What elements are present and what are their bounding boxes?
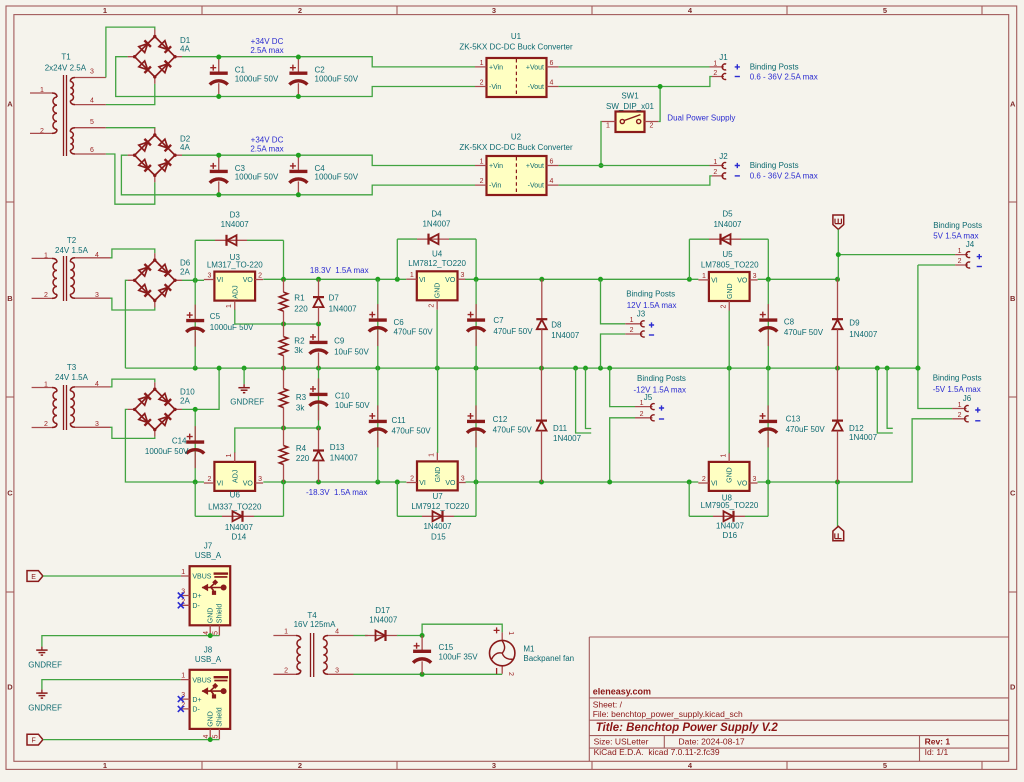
J7 pin names xyxy=(192,574,223,624)
svg-text:12V 1.5A max: 12V 1.5A max xyxy=(627,301,677,310)
svg-text:C1: C1 xyxy=(235,66,246,75)
svg-text:LM7805_TO220: LM7805_TO220 xyxy=(701,260,759,269)
C15 labels xyxy=(439,643,479,661)
capacitor C5 xyxy=(186,305,204,347)
svg-text:1N4007: 1N4007 xyxy=(553,434,582,443)
svg-text:Rev: 1: Rev: 1 xyxy=(925,737,951,747)
svg-text:R4: R4 xyxy=(296,444,307,453)
svg-text:1: 1 xyxy=(181,673,185,680)
svg-text:LM337_TO220: LM337_TO220 xyxy=(208,502,262,511)
svg-text:D3: D3 xyxy=(230,210,241,219)
diode D3 xyxy=(195,235,283,246)
title block text xyxy=(593,687,951,758)
ground symbol GNDREF J8 xyxy=(36,690,47,699)
svg-text:VI: VI xyxy=(217,481,224,488)
svg-text:J2: J2 xyxy=(719,152,728,161)
svg-text:ADJ: ADJ xyxy=(232,470,239,483)
U6 labels xyxy=(208,490,262,511)
C12 labels xyxy=(493,415,533,434)
transformer T3 xyxy=(32,385,110,430)
svg-text:2A: 2A xyxy=(180,268,190,277)
J2 note binding posts xyxy=(750,161,818,180)
svg-text:VO: VO xyxy=(243,277,254,284)
svg-text:ZK-5KX DC-DC Buck Converter: ZK-5KX DC-DC Buck Converter xyxy=(459,43,573,52)
J8 labels xyxy=(195,645,222,664)
svg-text:VI: VI xyxy=(217,277,224,284)
switch SW1 xyxy=(602,112,659,133)
D11 labels xyxy=(553,424,582,443)
junction dot SW1 bottom xyxy=(599,163,604,168)
svg-text:3k: 3k xyxy=(296,404,305,413)
svg-text:R2: R2 xyxy=(294,337,305,346)
ground rail xyxy=(125,367,918,369)
D9 labels xyxy=(849,319,878,340)
svg-text:VO: VO xyxy=(445,480,456,487)
junction dots 5V rail xyxy=(766,277,840,282)
J7 labels xyxy=(195,542,222,561)
svg-text:2: 2 xyxy=(429,304,436,308)
svg-text:1N4007: 1N4007 xyxy=(369,615,398,624)
wire D5 left vertical xyxy=(688,239,690,279)
capacitor C2 xyxy=(289,57,307,96)
frame row labels xyxy=(7,100,1016,692)
svg-text:2: 2 xyxy=(40,128,44,135)
connector J6 xyxy=(952,409,966,419)
D12 labels xyxy=(849,424,878,442)
svg-text:1: 1 xyxy=(40,87,44,94)
svg-text:1: 1 xyxy=(226,304,233,308)
svg-text:C11: C11 xyxy=(392,416,407,425)
wire -12V rail U7 VO to U8 VI xyxy=(466,481,699,483)
svg-text:M1: M1 xyxy=(523,644,535,653)
svg-text:T4: T4 xyxy=(307,611,317,620)
svg-text:-Vout: -Vout xyxy=(528,183,544,190)
U5 labels xyxy=(701,250,759,269)
svg-text:Binding Posts: Binding Posts xyxy=(637,374,686,383)
regulator U8 LM7905 xyxy=(698,452,757,491)
svg-text:U6: U6 xyxy=(230,490,241,499)
svg-text:KiCad E.D.A. kicad 7.0.11-2.f: KiCad E.D.A. kicad 7.0.11-2.fc39 xyxy=(594,747,720,757)
svg-text:2: 2 xyxy=(207,476,211,483)
svg-text:1: 1 xyxy=(640,400,644,407)
svg-text:0.6 - 36V 2.5A max: 0.6 - 36V 2.5A max xyxy=(750,172,818,181)
transformer T2 xyxy=(32,256,110,301)
U4 labels xyxy=(408,249,466,268)
svg-text:2: 2 xyxy=(44,292,48,299)
svg-text:+Vout: +Vout xyxy=(526,65,544,72)
svg-text:J6: J6 xyxy=(963,394,972,403)
svg-text:Size: USLetter: Size: USLetter xyxy=(594,737,649,747)
svg-text:+Vout: +Vout xyxy=(526,163,544,170)
wire F flag to J8 GND+Shield xyxy=(43,739,210,741)
svg-text:2A: 2A xyxy=(180,397,190,406)
wire U8 GND to ground rail xyxy=(728,368,730,453)
wire T4 pin4 to D17 xyxy=(354,635,368,637)
svg-text:C8: C8 xyxy=(784,318,795,327)
buck converter U1 xyxy=(475,58,559,97)
svg-text:SW_DIP_x01: SW_DIP_x01 xyxy=(606,102,655,111)
C5 labels xyxy=(210,312,254,332)
frame column labels xyxy=(103,6,887,770)
T1 labels xyxy=(40,53,94,155)
svg-text:J4: J4 xyxy=(966,240,975,249)
svg-text:10uF 50V: 10uF 50V xyxy=(334,348,369,357)
diode D17 xyxy=(365,630,397,641)
D15 labels xyxy=(423,522,452,542)
svg-text:3: 3 xyxy=(461,272,465,279)
wire -5V rail U8 VO to J6 pin2 xyxy=(758,419,953,482)
svg-text:4A: 4A xyxy=(180,143,190,152)
svg-text:3: 3 xyxy=(90,68,94,75)
svg-text:16V 125mA: 16V 125mA xyxy=(294,620,336,629)
wire U3 ADJ to divider xyxy=(235,310,319,324)
svg-text:B: B xyxy=(7,294,13,303)
svg-text:D-: D- xyxy=(192,603,200,610)
wire T1 pin6 to D2 bottom xyxy=(106,154,155,204)
junction dots 18.3V rail xyxy=(281,277,400,282)
wire C10 column xyxy=(318,368,320,428)
wire U5 GND to ground rail xyxy=(728,311,730,369)
wire C12 column xyxy=(475,368,477,482)
svg-text:4: 4 xyxy=(335,629,339,636)
J1 labels xyxy=(713,53,728,77)
svg-text:USB_A: USB_A xyxy=(195,655,222,664)
svg-text:ADJ: ADJ xyxy=(232,285,239,298)
bridge rectifier D10 xyxy=(128,382,182,436)
svg-text:U2: U2 xyxy=(511,133,522,142)
svg-text:VI: VI xyxy=(711,278,718,285)
svg-text:A: A xyxy=(1010,100,1016,109)
svg-text:470uF 50V: 470uF 50V xyxy=(493,327,533,336)
junction dots -18.3V rail xyxy=(281,480,400,485)
svg-text:T2: T2 xyxy=(67,236,77,245)
svg-text:4: 4 xyxy=(95,381,99,388)
D4 labels xyxy=(422,210,451,229)
svg-text:1: 1 xyxy=(44,382,48,389)
svg-text:3: 3 xyxy=(207,273,211,280)
wire D10 left to U6 VI xyxy=(125,409,204,482)
D10 labels xyxy=(180,388,195,406)
wire U7 GND to ground rail xyxy=(437,368,439,453)
svg-text:0.6 - 36V 2.5A max: 0.6 - 36V 2.5A max xyxy=(750,73,818,82)
J2 labels xyxy=(713,152,728,176)
svg-text:1N4007: 1N4007 xyxy=(225,523,254,532)
junction dots ADJ line U3 xyxy=(281,322,321,327)
svg-text:GND: GND xyxy=(207,608,214,624)
svg-text:VI: VI xyxy=(419,480,426,487)
svg-text:+34V DC: +34V DC xyxy=(251,136,284,145)
capacitor C10 xyxy=(310,378,328,420)
svg-text:5V 1.5A max: 5V 1.5A max xyxy=(933,232,978,241)
svg-text:+34V DC: +34V DC xyxy=(251,37,284,46)
svg-text:C: C xyxy=(1010,489,1016,498)
svg-text:eleneasy.com: eleneasy.com xyxy=(593,687,651,697)
wire C8 column xyxy=(767,279,769,368)
C6 labels xyxy=(394,318,434,336)
junction dot ground to J4/J6 column xyxy=(915,366,920,371)
D6 labels xyxy=(180,259,191,277)
junction dot D6 output node xyxy=(193,278,198,283)
wire J4 pin1 xyxy=(838,254,955,256)
resistor R4 xyxy=(279,428,287,482)
svg-text:1: 1 xyxy=(630,317,634,324)
svg-text:1: 1 xyxy=(507,631,514,635)
D3 labels xyxy=(221,210,250,229)
svg-text:VI: VI xyxy=(419,277,426,284)
R2 labels xyxy=(294,337,305,356)
capacitor C3 xyxy=(210,155,228,194)
svg-text:1: 1 xyxy=(410,272,414,279)
title block xyxy=(589,637,1008,761)
connector J3 xyxy=(625,324,642,334)
J5 labels xyxy=(640,393,653,418)
connector J1 xyxy=(710,67,725,77)
C13 labels xyxy=(786,415,826,434)
C2 labels xyxy=(315,66,359,84)
svg-text:5: 5 xyxy=(90,119,94,126)
svg-text:C9: C9 xyxy=(334,337,345,346)
wire D1 left loop to bottom rail xyxy=(116,57,475,97)
U1 labels xyxy=(459,32,573,51)
svg-text:3: 3 xyxy=(492,761,496,770)
svg-text:J7: J7 xyxy=(204,542,213,551)
svg-text:Sheet: /: Sheet: / xyxy=(593,699,623,709)
resistor R3 xyxy=(279,368,287,428)
wire D6 left to ground rail xyxy=(125,280,127,368)
svg-text:VO: VO xyxy=(445,277,456,284)
junction dots ADJ line U6 xyxy=(281,426,321,431)
connector J2 xyxy=(710,166,725,176)
junction dots C15 xyxy=(420,633,425,677)
svg-text:C10: C10 xyxy=(335,392,350,401)
regulator U4 LM7812 xyxy=(406,271,465,310)
svg-text:R1: R1 xyxy=(294,294,305,303)
C7 labels xyxy=(493,316,533,336)
svg-text:+Vin: +Vin xyxy=(489,65,503,72)
svg-text:5: 5 xyxy=(883,761,887,770)
svg-text:470uF 50V: 470uF 50V xyxy=(493,425,533,434)
svg-text:1N4007: 1N4007 xyxy=(849,433,878,442)
svg-text:D15: D15 xyxy=(431,532,446,541)
svg-text:-18.3V 1.5A max: -18.3V 1.5A max xyxy=(306,488,367,497)
svg-text:T3: T3 xyxy=(67,363,77,372)
wire U3 VO rail 18.3V xyxy=(263,278,406,280)
svg-text:1: 1 xyxy=(713,159,717,166)
junction dot J4 pin1 column xyxy=(836,252,841,257)
global label F flag bottom xyxy=(837,482,839,526)
diode D16 under U8 xyxy=(688,482,690,516)
dangling stub wires near J6 xyxy=(877,368,893,433)
svg-text:1: 1 xyxy=(480,159,484,166)
svg-text:Id: 1/1: Id: 1/1 xyxy=(925,747,949,757)
svg-text:U4: U4 xyxy=(432,249,443,258)
wire T2 pin4 to D6 top xyxy=(110,249,155,258)
svg-text:D11: D11 xyxy=(553,424,568,433)
svg-text:3: 3 xyxy=(492,6,496,15)
svg-text:U5: U5 xyxy=(722,250,733,259)
fan M1 xyxy=(490,632,515,673)
svg-text:1N4007: 1N4007 xyxy=(422,220,451,229)
J8 pin names xyxy=(192,677,223,727)
J6 labels xyxy=(958,394,972,419)
junction dots ground rail xyxy=(193,366,921,371)
svg-text:Binding Posts: Binding Posts xyxy=(626,289,675,298)
wire J8 VBUS to ground xyxy=(42,680,181,690)
svg-text:2: 2 xyxy=(258,273,262,280)
svg-text:J3: J3 xyxy=(637,310,646,319)
svg-text:Title: Benchtop Power Supply V: Title: Benchtop Power Supply V.2 xyxy=(596,722,779,734)
svg-text:GNDREF: GNDREF xyxy=(28,704,62,713)
svg-text:1: 1 xyxy=(958,402,962,409)
svg-text:5: 5 xyxy=(883,6,887,15)
svg-text:C4: C4 xyxy=(315,164,326,173)
svg-text:3: 3 xyxy=(95,421,99,428)
svg-text:D5: D5 xyxy=(722,210,733,219)
resistor R1 xyxy=(279,279,287,324)
svg-text:470uF 50V: 470uF 50V xyxy=(394,327,434,336)
capacitor C1 xyxy=(210,57,228,96)
wire SW1 left to U2 +Vout xyxy=(600,122,603,166)
svg-text:2: 2 xyxy=(298,761,302,770)
J8 no-connect marks xyxy=(178,696,184,712)
regulator U3 LM317 xyxy=(204,272,263,311)
svg-text:2.5A max: 2.5A max xyxy=(250,46,283,55)
wire D3 left vertical xyxy=(194,240,196,280)
connector J7 USB_A xyxy=(181,566,230,635)
note +34V DC row2 xyxy=(250,136,283,154)
svg-text:Binding Posts: Binding Posts xyxy=(750,63,799,72)
svg-text:220: 220 xyxy=(294,305,308,314)
wire U2 -Vout to J2 pin2 xyxy=(559,176,712,185)
svg-text:R3: R3 xyxy=(296,393,307,402)
svg-text:2: 2 xyxy=(410,476,414,483)
C4 labels xyxy=(315,164,359,182)
svg-text:1N4007: 1N4007 xyxy=(849,330,878,339)
wire U4 GND to ground rail xyxy=(436,310,438,368)
U2 labels xyxy=(459,133,573,152)
J7 pin numbers xyxy=(181,569,219,635)
wire C11 column xyxy=(377,368,379,482)
global label E flag top xyxy=(833,215,844,229)
svg-text:VO: VO xyxy=(737,278,748,285)
wire C13 column xyxy=(767,368,769,482)
svg-text:D9: D9 xyxy=(849,319,860,328)
wire T1 pin3 to D1 top xyxy=(106,27,155,77)
svg-text:3: 3 xyxy=(753,476,757,483)
svg-text:Shield: Shield xyxy=(217,604,224,624)
T3 labels xyxy=(44,363,99,428)
svg-text:5: 5 xyxy=(213,735,220,739)
svg-text:C2: C2 xyxy=(315,66,326,75)
svg-text:1N4007: 1N4007 xyxy=(221,220,250,229)
regulator U7 LM7912 xyxy=(407,452,466,491)
bridge rectifier D1 xyxy=(128,30,182,84)
C3 labels xyxy=(235,164,279,182)
svg-text:SW1: SW1 xyxy=(621,92,639,101)
svg-text:D+: D+ xyxy=(192,697,201,704)
svg-text:2: 2 xyxy=(713,70,717,77)
svg-text:1: 1 xyxy=(103,6,107,15)
R3 labels xyxy=(296,393,307,413)
D5 labels xyxy=(713,210,742,229)
resistor R2 xyxy=(279,324,287,368)
wire C7 column xyxy=(475,279,477,368)
svg-text:C5: C5 xyxy=(210,312,221,321)
SW1 labels xyxy=(606,92,655,130)
diode D7 xyxy=(313,279,324,324)
svg-text:LM317_TO-220: LM317_TO-220 xyxy=(207,261,263,270)
capacitor C15 xyxy=(413,636,431,675)
junction dot J8 ground xyxy=(208,737,213,742)
svg-text:2: 2 xyxy=(640,411,644,418)
svg-text:470uF 50V: 470uF 50V xyxy=(392,426,432,435)
U3 labels xyxy=(207,253,263,270)
svg-text:1: 1 xyxy=(44,253,48,260)
svg-text:2: 2 xyxy=(507,672,514,676)
svg-text:T1: T1 xyxy=(61,53,71,62)
J4 note binding posts xyxy=(933,221,982,241)
wire C14 column xyxy=(194,409,196,482)
svg-text:J8: J8 xyxy=(204,645,213,654)
svg-text:D+: D+ xyxy=(192,593,201,600)
wire J7 GND+Shield to ground xyxy=(210,635,219,637)
capacitor C7 xyxy=(467,304,485,346)
J4 labels xyxy=(958,240,975,265)
svg-text:B: B xyxy=(1010,294,1016,303)
svg-text:1N4007: 1N4007 xyxy=(551,331,580,340)
regulator U5 LM7805 xyxy=(698,272,757,311)
svg-text:D12: D12 xyxy=(849,424,864,433)
svg-text:3: 3 xyxy=(753,273,757,280)
svg-text:2: 2 xyxy=(713,169,717,176)
svg-text:Backpanel fan: Backpanel fan xyxy=(523,654,574,663)
svg-text:D-: D- xyxy=(192,707,200,714)
junction dot SW1 right branch xyxy=(658,84,663,89)
note +34V DC row1 xyxy=(250,37,283,55)
wire 5V rail U5 VO to D9 column xyxy=(758,278,838,280)
wire T2 pin3 to D6 bottom xyxy=(110,298,155,310)
svg-text:D16: D16 xyxy=(722,531,737,540)
transformer T4 xyxy=(273,633,353,677)
M1 pin marks xyxy=(494,627,514,676)
svg-text:1000uF 50V: 1000uF 50V xyxy=(315,74,359,83)
svg-text:1: 1 xyxy=(181,569,185,576)
svg-text:3: 3 xyxy=(95,292,99,299)
svg-text:470uF 50V: 470uF 50V xyxy=(786,425,826,434)
capacitor C6 xyxy=(369,304,387,346)
J3 note binding posts xyxy=(626,289,676,310)
svg-text:LM7905_TO220: LM7905_TO220 xyxy=(701,501,759,510)
bridge rectifier D6 xyxy=(128,253,182,307)
svg-text:C15: C15 xyxy=(439,643,454,652)
svg-text:GNDREF: GNDREF xyxy=(230,398,264,407)
wire T3 pin3 to D10 bottom xyxy=(110,427,155,438)
svg-text:1N4007: 1N4007 xyxy=(713,220,742,229)
diode D5 xyxy=(689,234,768,245)
svg-text:1000uF 50V: 1000uF 50V xyxy=(235,74,279,83)
svg-text:3: 3 xyxy=(461,476,465,483)
wire C6 column xyxy=(377,279,379,368)
svg-text:C12: C12 xyxy=(493,415,508,424)
svg-text:1: 1 xyxy=(702,273,706,280)
wire D6 right to U3 VI xyxy=(182,279,204,281)
svg-text:F: F xyxy=(31,738,35,745)
svg-text:1N4007: 1N4007 xyxy=(329,305,358,314)
svg-text:ZK-5KX DC-DC Buck Converter: ZK-5KX DC-DC Buck Converter xyxy=(459,143,573,152)
svg-text:1N4007: 1N4007 xyxy=(423,522,452,531)
diode D12 xyxy=(832,368,843,482)
wire D4 left vertical xyxy=(396,239,398,279)
